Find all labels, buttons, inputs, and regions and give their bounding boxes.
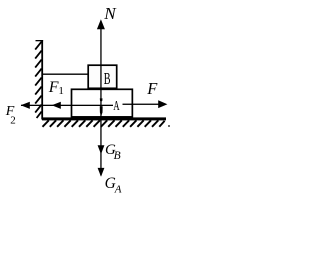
F arrow head xyxy=(158,100,167,108)
string wall to B xyxy=(43,73,89,75)
svg-text:A: A xyxy=(113,99,120,114)
arrow GA head xyxy=(98,168,105,177)
svg-text:1: 1 xyxy=(58,85,64,97)
F2 arrow head xyxy=(21,102,30,109)
svg-text:B: B xyxy=(114,150,121,162)
svg-text:F: F xyxy=(146,79,158,98)
horizontal force line (right part) xyxy=(123,104,159,105)
arrow N head xyxy=(97,19,105,29)
svg-text:2: 2 xyxy=(10,114,16,126)
dot right of ground xyxy=(168,125,170,127)
wall xyxy=(36,40,44,120)
small down arrow inside A (below line) xyxy=(100,106,103,116)
ground xyxy=(42,117,166,120)
small down arrow inside A (above line) xyxy=(100,98,103,102)
wall hatching xyxy=(35,42,41,118)
block B xyxy=(88,65,117,88)
svg-text:N: N xyxy=(103,4,117,23)
center vertical line xyxy=(100,27,101,176)
F1 arrow head xyxy=(52,102,61,109)
horizontal force line (left part) xyxy=(21,105,113,106)
svg-text:B: B xyxy=(104,69,111,88)
ground hatching xyxy=(43,120,165,127)
svg-text:F: F xyxy=(48,79,59,96)
svg-text:A: A xyxy=(114,184,122,196)
arrow GB head xyxy=(98,145,105,154)
block A xyxy=(72,89,133,117)
